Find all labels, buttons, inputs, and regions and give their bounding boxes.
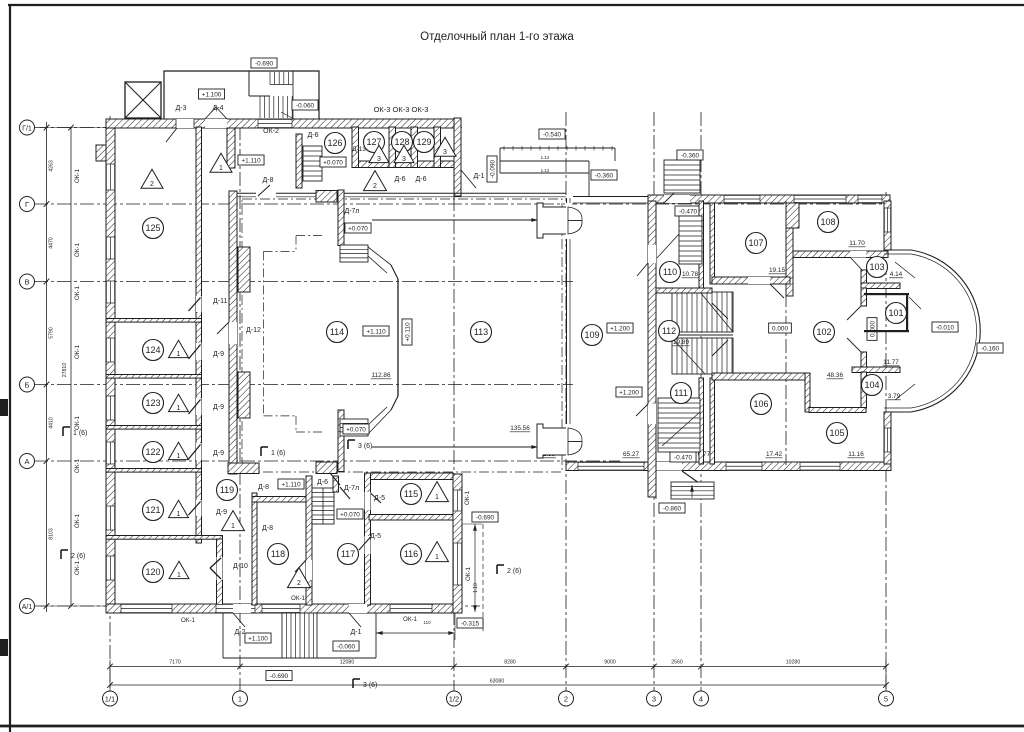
window ОК-1 left wall: [106, 237, 115, 259]
bottom wing east wall: [453, 474, 462, 613]
svg-text:Г/1: Г/1: [22, 125, 32, 132]
svg-text:Д-9: Д-9: [213, 404, 224, 411]
svg-text:107: 107: [748, 238, 763, 248]
svg-text:+0.070: +0.070: [346, 427, 366, 434]
room 102 south wall: [712, 373, 805, 380]
elevation mark +1.200: [607, 323, 633, 333]
svg-text:104: 104: [864, 380, 879, 390]
svg-text:-0.540: -0.540: [543, 132, 562, 139]
axis 2 line: [565, 112, 567, 691]
svg-text:10280: 10280: [786, 660, 801, 666]
svg-text:+0.070: +0.070: [323, 160, 343, 167]
room 104 west wall: [861, 372, 867, 408]
svg-text:9000: 9000: [604, 660, 616, 666]
room 107 south wall: [712, 277, 790, 284]
svg-text:Отделочный план 1-го этажа: Отделочный план 1-го этажа: [420, 31, 574, 43]
svg-text:ОК-2: ОК-2: [263, 128, 279, 135]
corridor/stair west wall: [306, 476, 312, 605]
wall left of room 127: [352, 127, 359, 168]
svg-text:0.000: 0.000: [870, 321, 877, 337]
svg-text:1: 1: [435, 554, 439, 561]
elevation mark +0.070: [343, 424, 369, 434]
room 101 circle: [886, 303, 907, 324]
corridor top boundary: [573, 196, 652, 198]
room 121 circle: [143, 500, 164, 521]
finish type triangle 1: [426, 542, 449, 562]
room 109 circle: [582, 325, 603, 346]
elevation mark -0.090: [487, 156, 497, 182]
svg-text:5790: 5790: [49, 327, 55, 339]
axis Г/1 bubble: [20, 120, 35, 135]
divider 110/112: [656, 288, 712, 293]
svg-text:ОК-1: ОК-1: [403, 616, 417, 623]
finish type triangle 1: [169, 561, 189, 578]
hall north pier: [316, 191, 337, 203]
wall 106/105: [805, 373, 810, 412]
svg-text:+0.070: +0.070: [348, 226, 368, 233]
svg-text:12080: 12080: [340, 660, 355, 666]
svg-text:2: 2: [564, 694, 568, 703]
svg-text:1: 1: [231, 523, 235, 530]
svg-text:135.56: 135.56: [510, 425, 530, 432]
svg-text:Д-11: Д-11: [213, 298, 227, 305]
room 128 circle: [392, 132, 413, 153]
apse lip bottom: [884, 407, 911, 409]
svg-text:129: 129: [416, 137, 431, 147]
room 105 circle: [827, 423, 848, 444]
room 105 north wall: [809, 408, 866, 413]
svg-text:122: 122: [145, 447, 160, 457]
svg-text:121: 121: [145, 505, 160, 515]
svg-text:Д-9: Д-9: [216, 509, 227, 516]
stage stair north: [340, 245, 368, 262]
room 102 circle: [814, 322, 835, 343]
door vestibule 2.10: [537, 203, 566, 238]
axis 1 line: [239, 126, 241, 691]
svg-text:128: 128: [394, 137, 409, 147]
elevation mark -0.160: [977, 343, 1003, 353]
porch dimension: [376, 632, 455, 634]
room 120 east wall: [217, 539, 223, 605]
stair 112 upper flight: [672, 292, 733, 332]
corridor 109 east wall: [648, 201, 656, 497]
window bottom wall right wing: [578, 462, 644, 471]
window top wall right wing: [858, 195, 882, 203]
binder tab 1: [0, 399, 8, 416]
svg-text:-0.690: -0.690: [270, 673, 289, 680]
svg-text:113: 113: [474, 327, 488, 337]
right dim of bottom wing: [474, 524, 476, 612]
svg-text:Д-3: Д-3: [176, 105, 187, 112]
section mark 1 (6): [260, 447, 262, 456]
svg-text:106: 106: [753, 399, 768, 409]
svg-text:65.27: 65.27: [623, 451, 639, 458]
window bottom wall right wing: [800, 462, 840, 471]
east outer wall upper: [884, 201, 891, 250]
finish type triangle 3: [434, 137, 456, 156]
svg-text:1 (6): 1 (6): [271, 450, 285, 457]
svg-text:Д-8: Д-8: [262, 525, 273, 532]
wall 128/129: [411, 127, 418, 168]
window ОК-1 left wall: [106, 442, 115, 464]
finish type triangle 1: [169, 500, 189, 517]
svg-text:2 (6): 2 (6): [507, 568, 521, 575]
svg-text:ОК-1: ОК-1: [74, 344, 81, 358]
svg-text:Д-5: Д-5: [374, 495, 385, 502]
stage stair south: [340, 419, 368, 436]
door Д-11: [196, 296, 202, 312]
stair room 110: [679, 216, 702, 264]
room 108 circle: [818, 212, 839, 233]
svg-text:63080: 63080: [490, 679, 505, 685]
finish type triangle 3: [369, 145, 389, 162]
stair east upper wall: [333, 476, 339, 492]
svg-text:10.78: 10.78: [682, 271, 698, 278]
svg-text:Б: Б: [25, 380, 30, 389]
hall north boundary: [237, 192, 566, 194]
svg-text:2: 2: [297, 580, 301, 587]
svg-text:4: 4: [699, 694, 703, 703]
svg-text:+1.100: +1.100: [202, 92, 222, 99]
svg-text:116: 116: [404, 549, 418, 559]
svg-text:+1.110: +1.110: [366, 329, 386, 336]
left overall dimension line: [70, 128, 72, 607]
page frame top border: [8, 4, 1024, 6]
interior axis line x786: [785, 201, 787, 465]
finish type triangle 1: [222, 511, 245, 531]
svg-text:ОК-1: ОК-1: [181, 617, 195, 624]
svg-text:5: 5: [884, 694, 888, 703]
svg-text:126: 126: [327, 138, 342, 148]
svg-text:ОК-1: ОК-1: [465, 566, 472, 580]
svg-text:110: 110: [663, 267, 677, 277]
svg-text:Д-6: Д-6: [317, 479, 328, 486]
elevation mark +1.110: [238, 155, 264, 165]
elevation mark -0.010: [932, 322, 958, 332]
window east wall lower: [884, 428, 891, 452]
svg-text:1/1: 1/1: [105, 694, 115, 703]
hall east wall: [566, 198, 568, 458]
svg-text:Д-13: Д-13: [352, 146, 366, 153]
apse door leaves: [895, 262, 915, 278]
finish type triangle 1: [169, 442, 189, 459]
svg-text:-0.690: -0.690: [255, 61, 274, 68]
room 115 circle: [401, 484, 422, 505]
axis 2 bubble: [559, 691, 574, 706]
room 122 circle: [143, 442, 164, 463]
annex stair treads upper flight: [269, 72, 271, 85]
svg-text:-0.360: -0.360: [681, 153, 700, 160]
axis Г line: [34, 203, 888, 205]
room 118 circle: [268, 544, 289, 565]
svg-text:114: 114: [330, 327, 344, 337]
room 101 walls: [864, 293, 909, 295]
left wing outer west wall: [106, 120, 115, 613]
axis 1/1 line: [109, 116, 111, 691]
svg-text:А/1: А/1: [22, 604, 33, 611]
wall 123/122: [106, 426, 202, 430]
room 112 circle: [659, 321, 680, 342]
stair rooms 117/118: [312, 488, 334, 524]
finish type triangle 1: [426, 482, 449, 502]
svg-text:110: 110: [423, 620, 431, 625]
wall 124/123: [106, 375, 202, 379]
stage wall north: [338, 190, 344, 246]
svg-text:19.15: 19.15: [769, 267, 785, 274]
svg-text:Д-5: Д-5: [370, 533, 381, 540]
stage apron dashed outline: [263, 251, 265, 416]
room 110 circle: [660, 262, 681, 283]
top entry ramp rails: [500, 147, 615, 149]
section mark 1 (6): [62, 427, 64, 436]
svg-text:111: 111: [674, 388, 688, 398]
svg-text:Д-1: Д-1: [474, 173, 485, 180]
wall 122/121: [106, 469, 202, 473]
elevation mark -0.470: [675, 206, 701, 216]
svg-text:1: 1: [177, 572, 181, 579]
axis А/1 bubble: [20, 599, 35, 614]
svg-text:3 (6): 3 (6): [363, 682, 377, 689]
elevation mark -0.315: [457, 618, 483, 628]
svg-text:Д-2: Д-2: [235, 629, 246, 636]
window top wall right wing: [724, 195, 760, 203]
window ОК-1 left wall: [106, 338, 115, 362]
elevation mark +0.070: [345, 223, 371, 233]
left wing top wall: [106, 119, 461, 128]
svg-text:1: 1: [177, 453, 181, 460]
axis Г/1 line: [34, 127, 465, 129]
svg-text:ОК-1: ОК-1: [464, 490, 471, 504]
elevation mark +1.100: [245, 633, 271, 643]
room 117 circle: [338, 544, 359, 565]
top wall right wing: [648, 195, 890, 203]
axis 1/2 line: [453, 128, 455, 691]
hall arrow south: [372, 446, 538, 448]
svg-text:Д-8: Д-8: [258, 484, 269, 491]
svg-text:+1.100: +1.100: [248, 636, 268, 643]
svg-text:ОК-1: ОК-1: [74, 285, 81, 299]
svg-text:109: 109: [584, 330, 599, 340]
svg-text:2: 2: [150, 181, 154, 188]
room 108 south wall: [793, 251, 888, 258]
hall south wall segment: [228, 463, 259, 474]
svg-text:3.79: 3.79: [888, 393, 901, 400]
svg-text:4470: 4470: [49, 237, 55, 249]
svg-text:1/2: 1/2: [449, 694, 459, 703]
svg-text:Д-8: Д-8: [263, 177, 274, 184]
svg-text:1: 1: [177, 351, 181, 358]
svg-text:Д-9: Д-9: [213, 351, 224, 358]
stage wall south: [338, 410, 344, 472]
room 119 circle: [217, 480, 238, 501]
hall south pier: [316, 462, 337, 474]
section mark 2 (6): [496, 565, 498, 574]
svg-text:1.10: 1.10: [473, 583, 479, 593]
elevation mark 0.000: [769, 323, 792, 333]
room 107 pilaster: [786, 203, 799, 228]
svg-text:Д-4: Д-4: [213, 105, 224, 112]
small rooms row bottom wall: [352, 161, 461, 168]
door Д-9: [196, 443, 202, 460]
svg-text:-0.470: -0.470: [679, 209, 698, 216]
elevation mark -0.540: [539, 129, 565, 139]
rooms 115/116 west wall: [365, 473, 371, 605]
svg-text:-0.360: -0.360: [595, 173, 614, 180]
window ОК-1 left wall: [106, 281, 115, 303]
hall west niche 1: [238, 247, 250, 292]
svg-text:1: 1: [219, 165, 223, 172]
room 127 circle: [364, 132, 385, 153]
door to south porch: [656, 462, 682, 471]
elevation mark -0.060: [333, 641, 359, 651]
crossed box (shaft): [125, 82, 161, 118]
top entry stair: [664, 160, 700, 193]
door Д-3: [176, 119, 194, 128]
svg-text:4263: 4263: [49, 160, 55, 172]
axis 5 line: [885, 192, 887, 691]
svg-text:1 (6): 1 (6): [73, 430, 87, 437]
elevation mark +1.100: [198, 89, 224, 99]
window ОК-1 bottom wall: [262, 604, 300, 613]
apse lip top: [884, 249, 911, 251]
svg-text:108: 108: [820, 217, 835, 227]
room 120 circle: [143, 562, 164, 583]
page frame left border: [9, 5, 11, 732]
svg-text:3: 3: [443, 149, 447, 156]
svg-text:Д-10: Д-10: [233, 563, 248, 570]
svg-text:115: 115: [404, 489, 418, 499]
door vestibule 2.38: [537, 424, 566, 458]
window east wall upper: [884, 208, 891, 232]
axis В line: [34, 281, 573, 283]
svg-text:-0.010: -0.010: [936, 325, 955, 332]
svg-text:125: 125: [145, 223, 160, 233]
svg-text:2 (6): 2 (6): [71, 553, 85, 560]
svg-text:27810: 27810: [62, 363, 68, 378]
room 114 circle: [327, 322, 348, 343]
left dimension line: [46, 122, 48, 612]
svg-text:1: 1: [177, 511, 181, 518]
double door 102 west: [712, 303, 728, 319]
room 104 north wall: [852, 367, 900, 373]
room 107 west wall: [710, 203, 715, 284]
axis 4 line: [700, 112, 702, 691]
double door 102/101: [847, 306, 861, 320]
axis 1/2 bubble: [447, 691, 462, 706]
elevation mark -0.860: [659, 503, 685, 513]
window ОК-1 left wall: [106, 164, 115, 190]
axis Г bubble: [20, 197, 35, 212]
window ОК-1 left wall: [106, 506, 115, 530]
svg-text:8280: 8280: [504, 660, 516, 666]
window bottom wall right wing: [726, 462, 762, 471]
svg-text:Д-12: Д-12: [246, 327, 261, 334]
svg-text:1.12: 1.12: [541, 155, 550, 160]
room 129 circle: [414, 132, 435, 153]
door Д-9: [196, 398, 202, 415]
axis А line: [34, 460, 620, 462]
elevation mark 0.000: [867, 318, 877, 341]
stage stair south fan: [368, 410, 391, 434]
elevation mark -0.060: [292, 100, 318, 110]
door room 101: [909, 297, 921, 309]
door Д-9: [196, 343, 202, 360]
left wing bottom wall: [106, 604, 462, 613]
elevation mark +0.110: [402, 319, 412, 345]
section mark 2 (6): [60, 550, 62, 559]
finish type triangle 2: [141, 169, 163, 188]
svg-text:2: 2: [373, 183, 377, 190]
elevation mark +0.070: [320, 157, 346, 167]
svg-text:1: 1: [435, 494, 439, 501]
svg-text:123: 123: [145, 398, 160, 408]
svg-text:+0.110: +0.110: [405, 322, 412, 342]
room 113 circle: [471, 322, 492, 343]
east outer wall lower: [884, 412, 891, 464]
room 126 circle: [325, 133, 346, 154]
top annex block: [164, 71, 319, 119]
svg-text:11.16: 11.16: [848, 451, 864, 458]
wall 115/116 divider: [369, 515, 453, 521]
svg-text:103: 103: [869, 262, 884, 272]
svg-text:В: В: [24, 277, 29, 286]
room 118 west wall: [252, 493, 257, 605]
binder tab 2: [0, 639, 8, 656]
svg-text:+0.070: +0.070: [340, 512, 360, 519]
elevation mark -0.690: [251, 58, 277, 68]
east end wall of top row: [454, 118, 461, 196]
svg-text:105: 105: [829, 428, 844, 438]
svg-text:112.86: 112.86: [371, 372, 391, 379]
apse arc: [911, 250, 980, 412]
svg-text:1: 1: [177, 405, 181, 412]
room 111 circle: [671, 383, 692, 404]
svg-text:Д-9: Д-9: [213, 450, 224, 457]
elevation mark +0.070: [337, 509, 363, 519]
window ОК-1 bottom wall: [216, 604, 255, 613]
svg-text:3 (6): 3 (6): [358, 443, 372, 450]
axis 5 bubble: [879, 691, 894, 706]
elevation mark +1.110: [278, 479, 304, 489]
axis В bubble: [20, 274, 35, 289]
svg-text:Д-6: Д-6: [308, 132, 319, 139]
finish type triangle 2: [364, 171, 387, 191]
svg-text:17.42: 17.42: [766, 451, 782, 458]
elevation mark -0.470: [670, 452, 696, 462]
svg-text:-0.060: -0.060: [296, 103, 315, 110]
svg-text:1: 1: [238, 694, 242, 703]
section mark 3 (6): [352, 679, 354, 688]
south porch stair: [671, 482, 714, 499]
window ОК-1 left wall: [106, 396, 115, 420]
window ОК-1 left wall: [106, 556, 115, 580]
svg-text:-0.090: -0.090: [490, 159, 497, 178]
stair near room 126: [303, 146, 322, 181]
room 115 north wall: [370, 473, 453, 480]
window ОК-1 east wall: [453, 490, 462, 511]
svg-text:19.89: 19.89: [673, 339, 689, 346]
svg-text:-0.690: -0.690: [476, 515, 495, 522]
section mark 3 (6): [347, 440, 349, 449]
svg-text:120: 120: [145, 567, 160, 577]
elevation mark +1.200: [616, 387, 642, 397]
svg-text:124: 124: [145, 345, 160, 355]
inner wall rooms 120-125 east: [196, 127, 202, 543]
elevation mark -0.360: [591, 170, 617, 180]
door Д-10 leaf: [210, 558, 221, 568]
door Д-1: [349, 604, 367, 613]
room 103 circle: [867, 257, 888, 278]
